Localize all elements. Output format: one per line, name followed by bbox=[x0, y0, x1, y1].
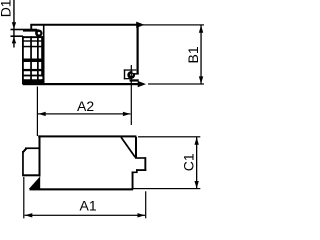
svg-text:A2: A2 bbox=[77, 98, 94, 114]
svg-text:C1: C1 bbox=[180, 153, 196, 171]
svg-text:A1: A1 bbox=[80, 197, 97, 213]
svg-text:D1: D1 bbox=[0, 0, 14, 17]
svg-text:B1: B1 bbox=[185, 46, 201, 63]
